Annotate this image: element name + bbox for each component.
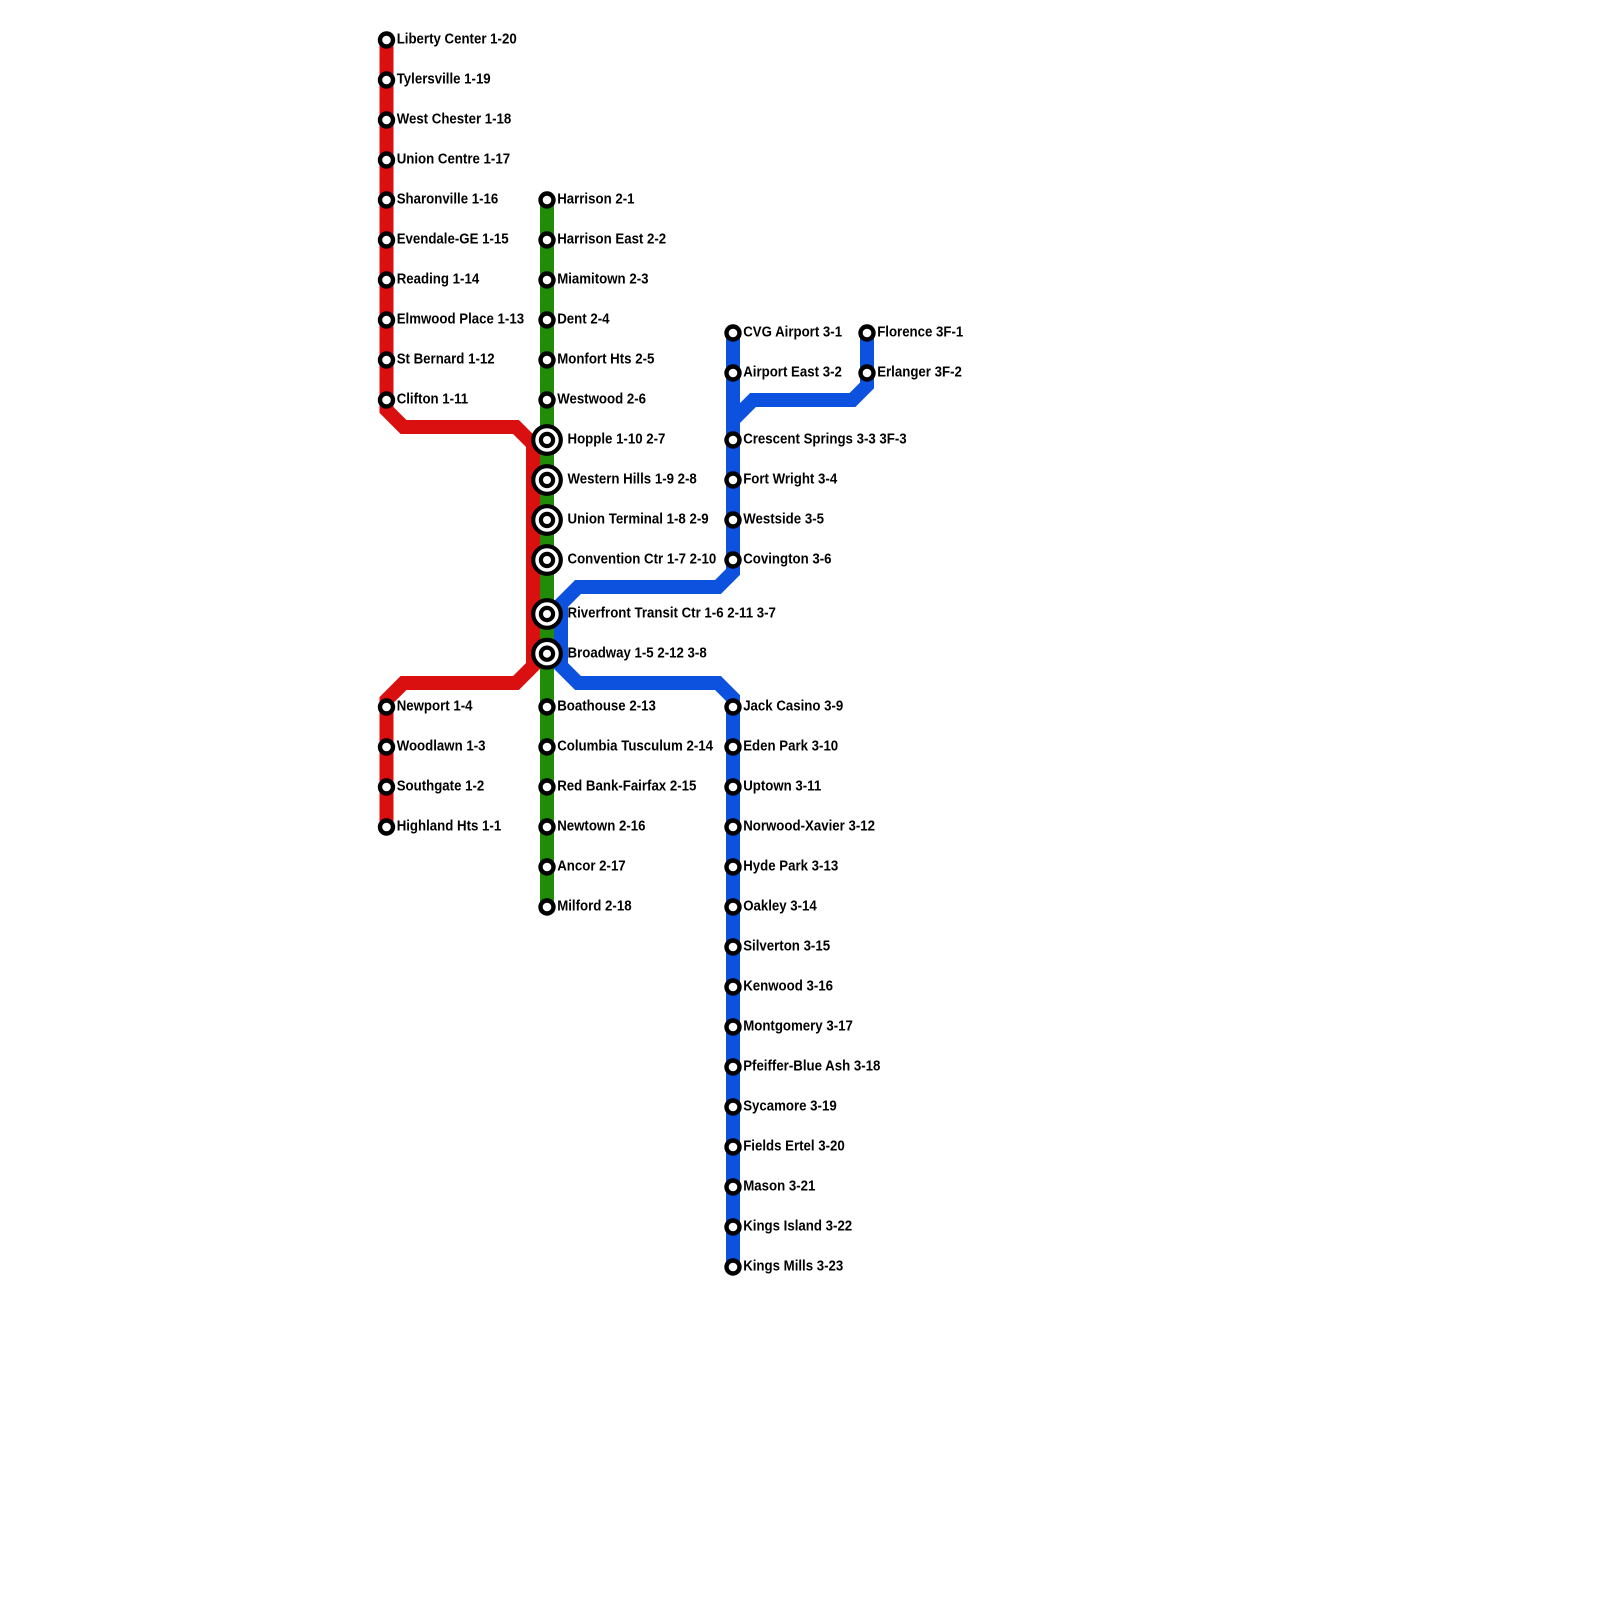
svg-text:Reading 1-14: Reading 1-14	[397, 272, 480, 288]
svg-text:Western Hills 1-9 2-8: Western Hills 1-9 2-8	[568, 472, 697, 488]
svg-text:Harrison 2-1: Harrison 2-1	[557, 192, 634, 208]
svg-text:Kings Island 3-22: Kings Island 3-22	[743, 1219, 852, 1235]
svg-text:Dent 2-4: Dent 2-4	[557, 312, 609, 328]
svg-text:Fort Wright 3-4: Fort Wright 3-4	[743, 472, 837, 488]
svg-text:Kings Mills 3-23: Kings Mills 3-23	[743, 1259, 843, 1275]
svg-text:Union Terminal 1-8 2-9: Union Terminal 1-8 2-9	[568, 512, 709, 528]
svg-text:Westside 3-5: Westside 3-5	[743, 512, 824, 528]
svg-text:Kenwood 3-16: Kenwood 3-16	[743, 979, 833, 995]
svg-text:Tylersville 1-19: Tylersville 1-19	[397, 72, 491, 88]
svg-text:Newtown 2-16: Newtown 2-16	[557, 819, 645, 835]
svg-text:Norwood-Xavier 3-12: Norwood-Xavier 3-12	[743, 819, 875, 835]
svg-text:Fields Ertel 3-20: Fields Ertel 3-20	[743, 1139, 845, 1155]
svg-text:Uptown 3-11: Uptown 3-11	[743, 779, 821, 795]
svg-text:Red Bank-Fairfax 2-15: Red Bank-Fairfax 2-15	[557, 779, 696, 795]
svg-text:CVG Airport 3-1: CVG Airport 3-1	[743, 325, 842, 341]
svg-text:Union Centre 1-17: Union Centre 1-17	[397, 152, 510, 168]
svg-text:Crescent Springs 3-3 3F-3: Crescent Springs 3-3 3F-3	[743, 432, 907, 448]
svg-text:Ancor 2-17: Ancor 2-17	[557, 859, 626, 875]
svg-text:Riverfront Transit Ctr 1-6 2-1: Riverfront Transit Ctr 1-6 2-11 3-7	[568, 606, 776, 622]
svg-text:Miamitown 2-3: Miamitown 2-3	[557, 272, 648, 288]
svg-text:Woodlawn 1-3: Woodlawn 1-3	[397, 739, 486, 755]
svg-text:Mason 3-21: Mason 3-21	[743, 1179, 815, 1195]
svg-text:Eden Park 3-10: Eden Park 3-10	[743, 739, 838, 755]
svg-text:Erlanger 3F-2: Erlanger 3F-2	[877, 365, 962, 381]
svg-text:West Chester 1-18: West Chester 1-18	[397, 112, 512, 128]
svg-text:Broadway 1-5 2-12 3-8: Broadway 1-5 2-12 3-8	[568, 645, 707, 661]
svg-text:Newport 1-4: Newport 1-4	[397, 699, 473, 715]
svg-text:Montgomery 3-17: Montgomery 3-17	[743, 1019, 853, 1035]
svg-text:Sharonville 1-16: Sharonville 1-16	[397, 192, 499, 208]
svg-text:Harrison East 2-2: Harrison East 2-2	[557, 232, 666, 248]
svg-text:Silverton 3-15: Silverton 3-15	[743, 939, 830, 955]
svg-text:Milford 2-18: Milford 2-18	[557, 899, 631, 915]
svg-text:Florence 3F-1: Florence 3F-1	[877, 325, 963, 341]
svg-text:Covington 3-6: Covington 3-6	[743, 552, 831, 568]
svg-text:Columbia Tusculum 2-14: Columbia Tusculum 2-14	[557, 739, 713, 755]
svg-text:Westwood 2-6: Westwood 2-6	[557, 392, 646, 408]
svg-text:Pfeiffer-Blue Ash 3-18: Pfeiffer-Blue Ash 3-18	[743, 1059, 880, 1075]
svg-text:Convention Ctr 1-7 2-10: Convention Ctr 1-7 2-10	[568, 552, 717, 568]
svg-text:Hyde Park 3-13: Hyde Park 3-13	[743, 859, 838, 875]
svg-text:Jack Casino 3-9: Jack Casino 3-9	[743, 699, 843, 715]
svg-text:Evendale-GE 1-15: Evendale-GE 1-15	[397, 232, 509, 248]
svg-text:Liberty Center 1-20: Liberty Center 1-20	[397, 32, 517, 48]
svg-text:Sycamore 3-19: Sycamore 3-19	[743, 1099, 837, 1115]
svg-text:Monfort Hts 2-5: Monfort Hts 2-5	[557, 352, 654, 368]
svg-text:Airport East 3-2: Airport East 3-2	[743, 365, 842, 381]
svg-text:Boathouse 2-13: Boathouse 2-13	[557, 699, 656, 715]
svg-text:Clifton 1-11: Clifton 1-11	[397, 392, 468, 408]
svg-text:Hopple 1-10 2-7: Hopple 1-10 2-7	[568, 432, 666, 448]
svg-text:Elmwood Place 1-13: Elmwood Place 1-13	[397, 312, 524, 328]
svg-text:Highland Hts 1-1: Highland Hts 1-1	[397, 819, 502, 835]
svg-text:Oakley 3-14: Oakley 3-14	[743, 899, 817, 915]
svg-text:St Bernard 1-12: St Bernard 1-12	[397, 352, 495, 368]
svg-text:Southgate 1-2: Southgate 1-2	[397, 779, 485, 795]
